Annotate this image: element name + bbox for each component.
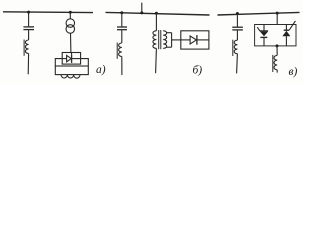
diode VD2 [181,35,209,45]
thyristor VS1 [257,25,268,46]
node junction bus-C2 [120,11,123,14]
inductor L1 winding [25,40,28,54]
wire C2-L2 lead [121,30,123,43]
node junction bus-tick [140,11,143,14]
svg-text:в): в) [289,66,298,78]
node junction bus-C3 [236,12,239,15]
wire bus section b [106,12,210,15]
transformer T1 primary winding [66,19,75,28]
transformer T2 core [159,30,161,49]
capacitor C3 [232,27,243,30]
transformer T2 secondary winding [163,31,166,49]
wire T1-U1 lead [70,33,72,52]
svg-text:а): а) [96,64,106,76]
node junction bus-U3 [276,12,279,15]
transformer T2 primary winding [153,31,157,49]
device U2 box [181,31,209,49]
wire L1 bottom lead [27,54,29,75]
wire C1 top lead [28,12,30,26]
node junction bus-C1 [27,11,30,14]
inductor L2 core [116,43,118,59]
device U3 box [255,25,296,46]
wire U1 right shoulder [81,59,89,66]
wire U1 left shoulder [55,59,62,66]
wire L2 bottom lead [121,57,123,76]
inductor L1 core [23,40,25,56]
wire T2 primary bottom lead [155,48,158,73]
wire L3 bottom lead [236,54,239,74]
capacitor C2 [117,27,127,30]
node junction bus-T1 [69,11,72,14]
node junction U3 bottom [276,44,279,47]
wire U3-L4 lead [276,46,278,55]
inductor L4 winding [274,55,277,69]
inductor L3 core [232,40,234,56]
wire C3-L3 lead [236,31,238,41]
wire bus section v [218,12,300,15]
svg-text:б): б) [193,65,203,77]
wire secondary connector vertical [171,33,173,48]
node junction bus-T2 [155,12,158,15]
diode VD1 [62,53,80,63]
wire C2 top lead [121,13,123,27]
wire T1 top lead [69,12,71,18]
wire T2 top lead [155,13,157,31]
transformer T1 secondary winding [66,25,75,34]
wire secondary top stub [166,32,171,34]
wire U3 top lead [276,13,278,24]
wire C1-L1 lead [28,30,30,40]
wire feeder tick above bus [141,3,143,14]
inductor L2 winding [119,43,122,57]
capacitor C1 [23,27,34,30]
wire C3 top lead [236,14,238,27]
inductor L4 core [272,55,274,72]
device U1 inner box [62,53,80,65]
wire secondary bottom stub [166,46,171,48]
wire connector to U2 [172,39,181,41]
wire bus section a [3,11,93,14]
wire L4 bottom lead [276,70,278,73]
thyristor VS2 [282,21,295,46]
device U1 outer box [55,66,88,75]
device U1 bottom winding [61,75,80,79]
inductor L3 winding [234,40,237,54]
